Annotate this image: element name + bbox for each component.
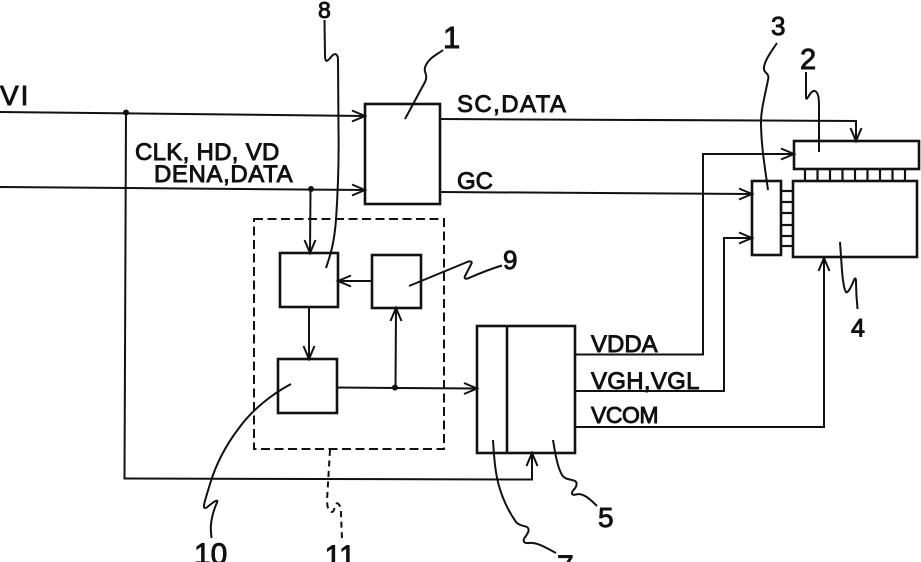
svg-text:9: 9	[503, 245, 517, 275]
arrowhead into block 1 lower input	[352, 185, 365, 196]
wire VCOM to panel 4	[575, 258, 824, 427]
wire junction up to block 9	[395, 309, 398, 388]
arrowhead into panel 4 bottom	[819, 258, 830, 271]
leader to label 5	[553, 440, 597, 506]
svg-text:4: 4	[851, 315, 865, 343]
wire long feedback left-bottom from VI junction	[125, 112, 533, 480]
node junction on second bus	[308, 186, 314, 192]
node junction on VI bus	[123, 110, 129, 116]
arrowhead into block 2 top	[851, 128, 862, 141]
block 10	[278, 359, 337, 413]
arrowhead into block 5 left	[464, 383, 477, 394]
arrowhead into block 8 top	[305, 240, 316, 253]
arrowhead into block 1 top input	[352, 111, 365, 122]
arrowhead into block 8 right side	[338, 276, 351, 287]
wire VGH,VGL to block 3	[575, 238, 751, 391]
leader to label 7	[493, 440, 556, 553]
wire junction down to block 8	[309, 189, 312, 252]
block 3 gate driver	[752, 181, 781, 255]
wire VI top bus	[0, 112, 364, 116]
svg-text:VDDA: VDDA	[591, 331, 658, 358]
block 5 power circuit	[477, 326, 575, 453]
block 9	[372, 255, 421, 308]
leader to label 3	[761, 43, 777, 190]
leader to label 11 dashed	[327, 450, 342, 539]
svg-text:SC,DATA: SC,DATA	[457, 91, 567, 118]
leader to label 4	[840, 242, 858, 309]
wire block 9 to block 8	[339, 280, 372, 282]
svg-text:DENA,DATA: DENA,DATA	[154, 161, 293, 188]
block 2 source driver	[794, 141, 919, 169]
svg-text:11: 11	[325, 540, 356, 562]
arrowhead into block 10 top	[304, 346, 315, 359]
svg-text:2: 2	[800, 44, 816, 76]
svg-text:5: 5	[598, 502, 614, 533]
arrowhead into block 3 upper input	[739, 189, 752, 200]
wire second bus CLK/HD/VD/DENA/DATA	[0, 187, 364, 190]
wire VDDA to block 2	[575, 154, 793, 355]
connector teeth between block 2 and panel	[805, 169, 905, 181]
svg-text:7: 7	[557, 550, 574, 562]
wire block 10 to block 5	[337, 388, 476, 389]
svg-text:GC: GC	[457, 168, 493, 195]
node junction on block10 output	[392, 385, 398, 391]
arrowhead into block 5 bottom	[527, 453, 538, 466]
svg-text:1: 1	[443, 20, 460, 55]
arrowhead into block 3 lower input	[739, 233, 752, 244]
block 4 LCD panel	[793, 181, 917, 257]
leader to label 8	[325, 20, 339, 268]
wire GC from block 1 to block 3	[440, 192, 751, 194]
svg-text:VI: VI	[0, 80, 30, 111]
svg-text:VCOM: VCOM	[591, 402, 658, 428]
leader to label 1	[405, 50, 443, 119]
block 5 inner divider (block 7 compartment)	[506, 326, 509, 453]
leader to label 9	[409, 261, 502, 286]
block 8	[280, 253, 338, 307]
svg-text:8: 8	[318, 0, 331, 23]
svg-text:3: 3	[771, 11, 785, 41]
arrowhead into block 9 bottom	[391, 308, 402, 321]
connector teeth between block 3 and panel	[781, 191, 793, 246]
wire SC,DATA from block 1 to block 2	[440, 119, 856, 140]
svg-text:10: 10	[194, 538, 227, 562]
leader to label 10	[204, 384, 291, 538]
wire block 8 to block 10	[308, 307, 310, 358]
dashed box 11	[254, 219, 444, 449]
leader to label 2	[806, 72, 819, 152]
block 1	[365, 104, 440, 204]
svg-text:VGH,VGL: VGH,VGL	[591, 368, 700, 395]
arrowhead into block 2 left	[781, 149, 794, 160]
